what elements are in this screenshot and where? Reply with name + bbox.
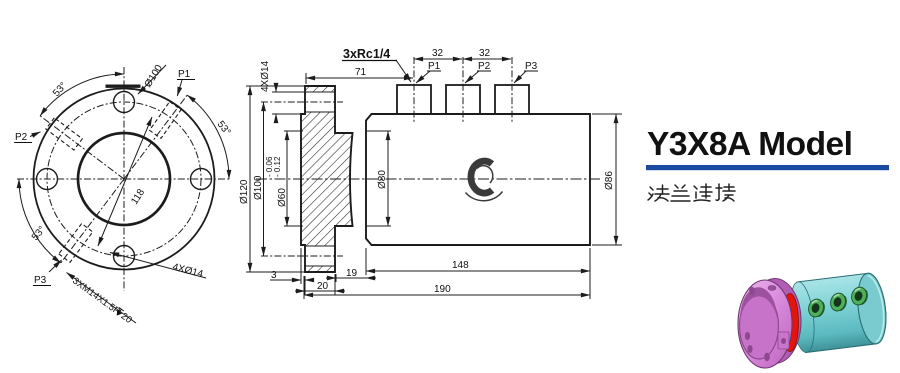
char 法 [648,185,669,201]
svg-text:Ø86: Ø86 [604,171,615,190]
dim 4XØ14 arrows [275,83,277,92]
flange section hatched body [301,86,353,272]
horizontal centerline [17,178,231,180]
bolt hole top [114,92,135,113]
bolt hole bottom [114,246,135,267]
port 3 green [850,285,870,307]
dim 3 [270,279,301,281]
svg-text:Y3X8A Model: Y3X8A Model [647,126,852,163]
svg-text:Ø100: Ø100 [143,63,166,90]
bore circle Ø60 [78,133,170,225]
leader 4XØ14 front [110,253,206,279]
dim Ø86 [615,114,617,245]
svg-text:118: 118 [129,187,147,207]
ext line Ø60 bottom [284,225,303,227]
svg-text:53°: 53° [51,80,69,99]
leader Ø100 [138,65,166,94]
svg-text:P2: P2 [15,132,28,143]
body cylinder outline [366,114,590,245]
flange rim hole [768,286,776,291]
bolt hole right [191,169,212,190]
angle arc 53 top-left [40,74,124,116]
blue divider line [646,165,889,170]
leader 3xRc1/4 [396,60,411,82]
port boss P3 [495,85,529,114]
flange bore [740,293,779,359]
ext line Ø100 bottom [261,255,297,257]
char 连 [694,184,712,201]
dim 20 [295,290,305,292]
flange bolt slot top [306,92,334,112]
port P2 centerline [462,57,464,122]
dim 32 first [414,58,462,60]
port 2 green [829,291,849,313]
flange top flat [106,84,141,87]
svg-text:32: 32 [479,48,491,59]
svg-text:Ø100: Ø100 [253,175,264,200]
red O-ring [782,294,799,352]
dim 71 [306,77,413,79]
body cylinder [787,272,889,354]
port boss P1 [397,85,431,114]
svg-text:P3: P3 [525,61,538,72]
leader P2 [30,132,41,137]
flange bolt hole bottom [764,353,770,361]
char 接 [716,184,735,201]
svg-text:Ø80: Ø80 [377,170,388,189]
flange outer circle [34,89,215,270]
section centerline [256,178,601,180]
flange key tab [778,332,789,349]
svg-text:20: 20 [317,281,329,292]
dim Ø60 line [286,131,288,226]
char 兰 [671,185,690,201]
svg-text:3xRc1/4: 3xRc1/4 [343,47,390,61]
leader P2 section [465,71,479,83]
dim Ø80 [387,131,389,226]
port P3 hidden rectangle [59,224,93,263]
svg-text:148: 148 [452,260,469,271]
port P3 radial centerline [60,179,124,265]
angle arc 53 bottom-left [19,179,61,263]
dim Ø120 line [249,86,251,272]
svg-text:53°: 53° [215,119,233,138]
body right end cap [854,272,889,346]
svg-text:4XØ14: 4XØ14 [171,262,204,281]
dim 190 [304,294,590,296]
svg-text:P2: P2 [478,61,491,72]
svg-text:P3: P3 [34,275,47,286]
port boss P2 [446,85,480,114]
leader P1 [177,80,182,96]
dim 148 [366,270,590,272]
bolt slot bottom centerline [297,255,343,257]
bolt circle Ø100 [47,102,201,256]
dim Ø100 line [263,102,265,256]
bolt slot top centerline [297,101,343,103]
ext line Ø60 top [284,130,303,132]
svg-text:P1: P1 [178,69,191,80]
label 3XM14X1.5P depth 20 [70,276,134,326]
leader 3XM14 thread note [67,273,137,324]
flange disc side rim [749,279,801,364]
angle arc 53 right [187,95,229,179]
dim 19 [326,277,336,279]
subtitle 法兰连接 (drawn strokes) [648,184,735,201]
svg-text:53°: 53° [30,224,48,243]
port P3 centerline [511,57,513,122]
body left end [787,281,817,354]
svg-text:190: 190 [434,284,451,295]
port P1 centerline [413,57,415,122]
flange bolt slot bottom [306,246,334,266]
port P1 hidden rectangle [150,102,182,139]
svg-text:3: 3 [271,270,277,281]
svg-text:P1: P1 [428,61,441,72]
bore ledge bottom [367,225,391,227]
port P2 hidden rectangle [46,118,82,150]
ext line flange bottom [246,271,306,273]
flange bolt hole right [745,332,750,340]
flange bore shading [740,287,777,320]
bore ledge top [367,130,391,132]
flange disc face [738,280,792,368]
flange bolt hole bottom-left [747,345,752,353]
svg-text:4XØ14: 4XØ14 [260,60,271,92]
dim 32 second [463,58,511,60]
svg-text:19: 19 [346,268,358,279]
svg-text:3XM14X1.5P: 3XM14X1.5P [70,276,122,318]
svg-text:Ø120: Ø120 [239,179,250,204]
vertical centerline [123,67,125,291]
dimension 118 diagonal [98,117,152,246]
svg-text:32: 32 [432,48,444,59]
port 1 green [807,297,827,319]
port P1 radial centerline [124,94,188,180]
ext line Ø100 top [261,101,297,103]
port P2 radial centerline [39,115,125,179]
svg-text:- 0.12: - 0.12 [273,156,282,177]
svg-text:Ø60: Ø60 [277,188,288,207]
flange bolt hole top [749,287,755,295]
svg-text:71: 71 [355,67,367,78]
leader P1 section [416,71,430,83]
ext line flange top [246,85,306,87]
leader P3 [49,260,62,272]
leader P3 section [514,71,526,83]
company C logo watermark [466,161,503,201]
bolt hole left [37,169,58,190]
